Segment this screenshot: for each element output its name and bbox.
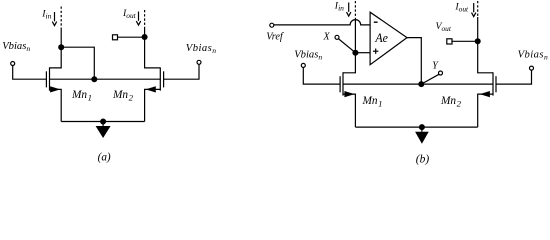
dashed current path Iin (a)	[60, 7, 62, 29]
wire drain Mn1 (b)	[343, 53, 355, 73]
bulk rail between Mn1 and Mn2 (a)	[50, 78, 161, 80]
op-amp minus sign	[374, 21, 378, 23]
ground triangle (b)	[415, 132, 429, 144]
wire square to drain node (a)	[117, 36, 144, 38]
wire source Mn2 (b)	[478, 94, 493, 127]
wire Iout drop to node (a)	[144, 29, 146, 37]
transistor Mn1 gate bar (b)	[339, 76, 341, 92]
transistor Mn2 gate bar (a)	[163, 71, 165, 87]
terminal circle Vbias left (b)	[301, 63, 305, 67]
svg-text:Vbiasn: Vbiasn	[186, 43, 217, 55]
node X junction (b)	[352, 50, 358, 56]
output square terminal (b)	[447, 39, 452, 44]
wire drain Mn2 (a)	[145, 37, 161, 68]
svg-text:Ae: Ae	[374, 31, 388, 45]
node drain Mn1 (a)	[58, 44, 64, 50]
wire Iin drop to drain node (a)	[60, 28, 62, 47]
svg-text:Vbiasn: Vbiasn	[2, 41, 30, 53]
ground triangle (a)	[96, 126, 111, 138]
dashed current path Iout (a)	[144, 10, 146, 29]
wire source Mn1 (a)	[50, 89, 62, 121]
wire Vbias to gate Mn1 (a)	[13, 65, 47, 79]
svg-text:Vref: Vref	[266, 32, 285, 43]
terminal circle Vbias left (a)	[11, 62, 15, 66]
output square terminal (a)	[113, 35, 118, 40]
transistor Mn1 gate bar (a)	[45, 71, 47, 87]
wire drain Mn2 (b)	[478, 41, 493, 73]
terminal circle Vbias right (b)	[530, 66, 534, 70]
terminal circle Vbias right (a)	[197, 60, 201, 64]
current arrow Iin (b)	[347, 3, 351, 17]
bottom source rail (b)	[355, 126, 477, 128]
wire source Mn1 (b)	[343, 94, 355, 127]
source arrow Mn2 (a)	[146, 86, 156, 92]
stub node X to test point (b)	[338, 39, 355, 53]
svg-text:X: X	[323, 32, 331, 43]
terminal circle X (b)	[335, 35, 339, 39]
svg-text:(b): (b)	[416, 153, 430, 165]
node Y junction (b)	[418, 81, 424, 87]
current arrow Iout (a)	[136, 12, 140, 26]
ground stem (a)	[102, 122, 104, 127]
dashed current path Iin (b)	[354, 1, 356, 19]
wire Iout drop to node (b)	[477, 17, 479, 41]
current arrow Iout (b)	[472, 3, 476, 17]
op-amp U1 triangle	[370, 12, 407, 64]
bulk rail between Mn1 and Mn2 (b)	[343, 83, 493, 85]
transistor Mn2 channel bar (a)	[159, 67, 161, 90]
wire drain Mn1 (a)	[50, 47, 62, 68]
svg-text:(a): (a)	[98, 152, 111, 164]
wire Iin drop to node X (b)	[354, 19, 356, 53]
source arrow Mn1 (b)	[344, 91, 354, 97]
transistor Mn1 channel bar (b)	[342, 72, 344, 95]
node drain Mn2 (a)	[142, 34, 148, 40]
wire square to drain node (b)	[451, 40, 477, 42]
wire source Mn2 (a)	[145, 89, 161, 121]
svg-text:Vbiasn: Vbiasn	[518, 50, 549, 62]
bottom source rail (a)	[61, 121, 144, 123]
stub node Y to test point (b)	[421, 74, 439, 84]
wire gate Mn2 to Vbias right (a)	[164, 64, 199, 79]
wire Vbias to gate Mn1 (b)	[303, 67, 340, 84]
svg-text:Vbiasn: Vbiasn	[294, 50, 322, 62]
node ground junction (b)	[419, 124, 425, 130]
terminal circle Y (b)	[439, 71, 443, 75]
ground stem (b)	[421, 127, 423, 132]
transistor Mn1 channel bar (a)	[49, 67, 51, 90]
source arrow Mn2 (b)	[480, 91, 490, 97]
source arrow Mn1 (a)	[50, 86, 60, 92]
wire gate Mn2 to Vbias right (b)	[496, 70, 532, 84]
node bulk junction (a)	[91, 76, 97, 82]
transistor Mn2 channel bar (b)	[492, 72, 494, 95]
dashed current path Iout (b)	[477, 1, 479, 17]
wire Vref to inverting input with hop (b)	[274, 20, 371, 25]
op-amp plus sign	[373, 49, 378, 54]
node ground junction (a)	[100, 119, 106, 125]
wire drain node to bulk node (a)	[61, 47, 94, 79]
op-amp output wire to node Y (b)	[407, 38, 421, 85]
transistor Mn2 gate bar (b)	[495, 76, 497, 92]
terminal circle Vref (b)	[270, 23, 274, 27]
current arrow Iin (a)	[52, 12, 56, 26]
node drain Mn2 (b)	[475, 38, 481, 44]
wire node X to plus input (b)	[355, 52, 370, 54]
